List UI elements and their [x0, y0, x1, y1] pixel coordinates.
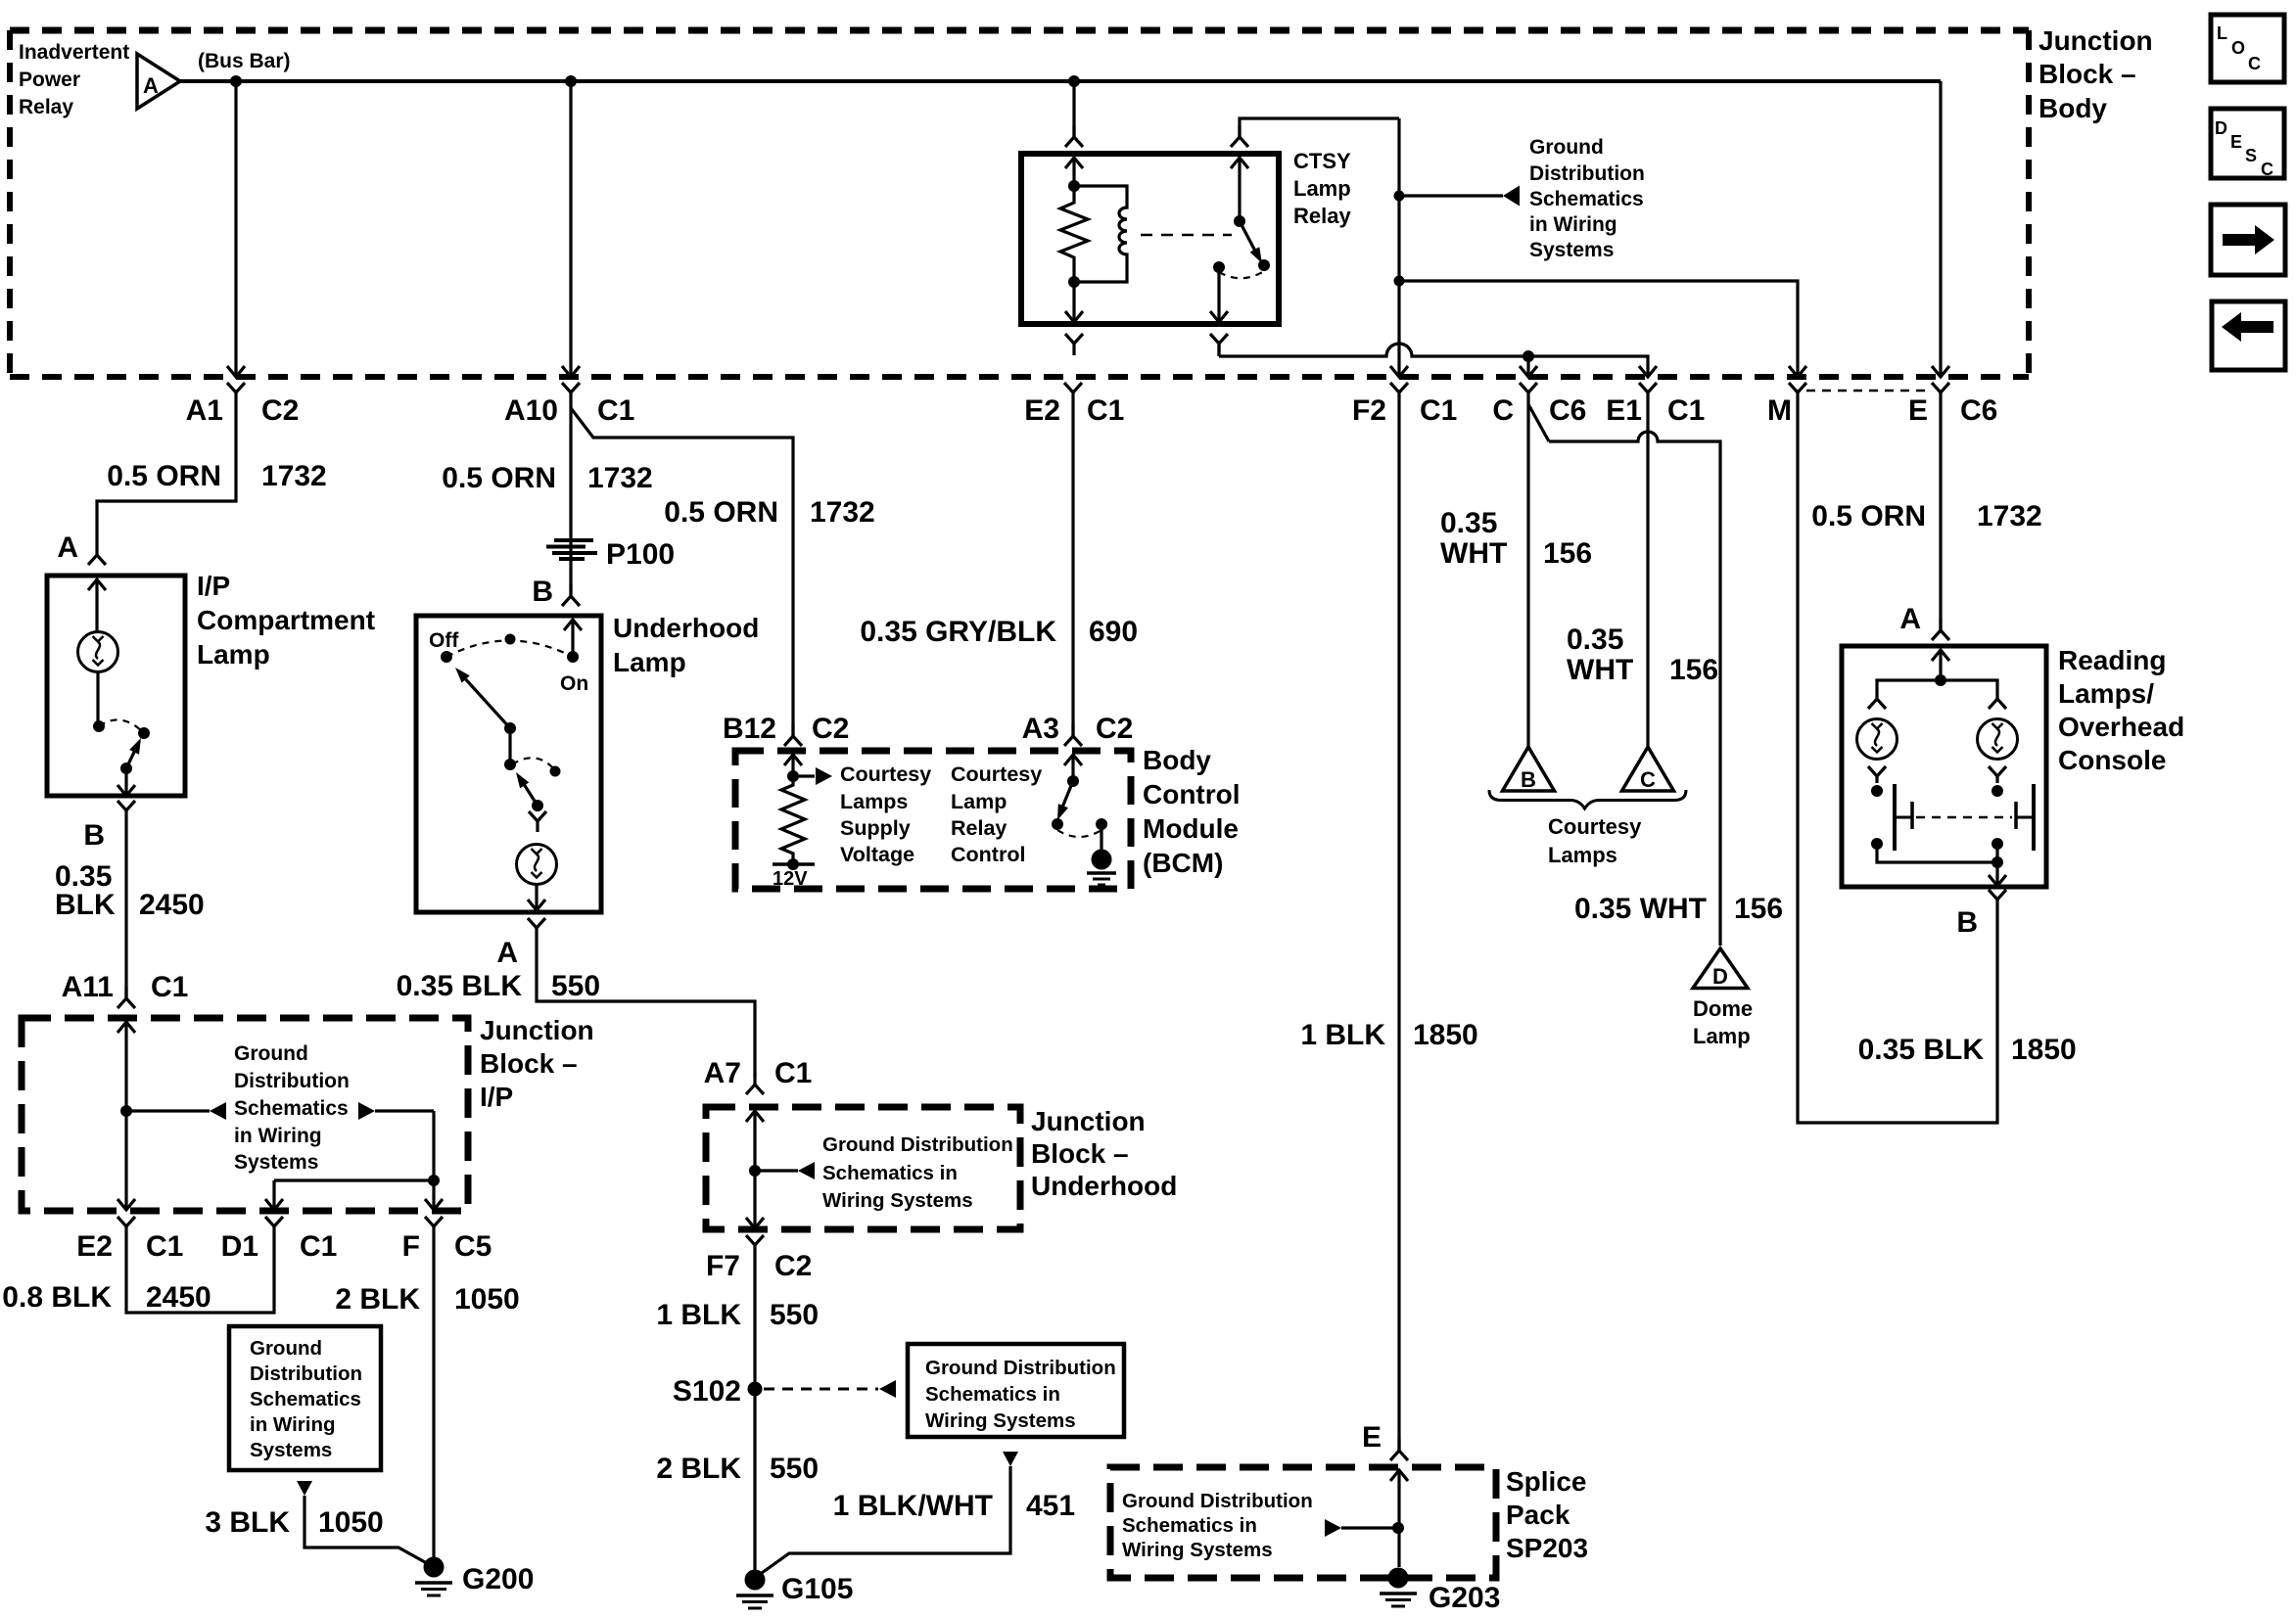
junction node on bus (A1) [230, 75, 242, 87]
relay coil (inductor) [1074, 186, 1127, 282]
svg-text:Courtesy: Courtesy [840, 762, 931, 786]
wire label: 2 BLK 550 [656, 1453, 819, 1485]
label: On [560, 672, 588, 695]
ground G203 [1380, 1568, 1500, 1615]
icon box right arrow [2211, 205, 2285, 275]
connector A10/C1 [504, 383, 634, 427]
junction node on bus (CTSY relay) [1068, 75, 1080, 87]
svg-text:E2: E2 [76, 1230, 113, 1263]
svg-text:C1: C1 [1667, 394, 1705, 427]
CTSY lamp relay box [1021, 154, 1279, 324]
svg-text:0.5 ORN: 0.5 ORN [107, 460, 221, 492]
svg-text:Distribution: Distribution [1529, 162, 1645, 185]
connector A3/C2 [1022, 713, 1134, 746]
courtesy lamp triangle C [1622, 747, 1674, 792]
node on switch output wire (C feed) [1523, 350, 1534, 362]
svg-text:C1: C1 [597, 394, 634, 427]
connector F7/C2 [706, 1235, 812, 1282]
wire label: 3 BLK 1050 [205, 1506, 383, 1539]
wire label: 1 BLK 1850 [1300, 1019, 1477, 1051]
svg-text:550: 550 [551, 970, 600, 1002]
relay coil entry arrow [1065, 158, 1083, 186]
underhood switch link [508, 728, 511, 764]
svg-text:0.5 ORN: 0.5 ORN [1811, 500, 1926, 532]
svg-text:C2: C2 [812, 713, 849, 745]
svg-text:Relay: Relay [951, 816, 1007, 840]
svg-text:1850: 1850 [1413, 1019, 1478, 1051]
underhood lamp exit arrow [528, 884, 545, 910]
BCM switch arm [1057, 781, 1073, 820]
svg-text:0.35 GRY/BLK: 0.35 GRY/BLK [860, 616, 1056, 648]
ground dist reference line left (I/P) [126, 1102, 226, 1120]
underhood switch node mid [505, 634, 516, 645]
label: Reading Lamps/ Overhead Console [2058, 645, 2184, 775]
label: I/P Compartment Lamp [197, 571, 375, 670]
left reading lamp connector [1868, 699, 1886, 709]
svg-text:Body: Body [2038, 93, 2107, 123]
icon box DESC [2211, 109, 2284, 179]
svg-text:Distribution: Distribution [234, 1070, 350, 1092]
svg-text:C6: C6 [1960, 394, 1997, 427]
label: Ground Distribution Schematics in Wiring Systems (box middle) [925, 1357, 1116, 1432]
wire E/C6 to reading lamps A [1939, 404, 1942, 630]
reading lamps top node [1935, 674, 1946, 686]
connector C/C6 [1492, 383, 1586, 427]
svg-text:(Bus Bar): (Bus Bar) [198, 50, 291, 72]
BCM B12 entry arrow [784, 755, 802, 776]
svg-text:Compartment: Compartment [197, 605, 375, 635]
reading lamps feed wires [1877, 680, 1997, 699]
dome lamp triangle D [1693, 948, 1748, 989]
label: Junction Block - Underhood [1031, 1106, 1177, 1201]
svg-text:A10: A10 [504, 394, 558, 427]
wire label: 0.35 GRY/BLK 690 [860, 616, 1138, 648]
relay switch contact node (fixed) [1213, 261, 1225, 273]
label: Junction Block - Body [2038, 25, 2153, 123]
wire inside junction block underhood [746, 1111, 764, 1228]
junction block - underhood dashed box [706, 1107, 1020, 1229]
svg-text:Schematics in: Schematics in [822, 1162, 958, 1184]
relay coil to switch dashed link [1141, 234, 1232, 237]
wire inside junction block I/P (to D1 and F) [265, 1111, 443, 1210]
relay switch dashed arc [1219, 271, 1264, 278]
svg-text:A: A [143, 73, 159, 98]
label: Courtesy Lamps Supply Voltage [840, 762, 931, 866]
wire C6 to courtesy lamp B [1526, 404, 1529, 747]
wire label: 0.5 ORN 1732 (E) [1811, 500, 2041, 532]
connector A below underhood lamp [496, 918, 545, 969]
brace under courtesy lamps [1489, 790, 1686, 808]
BCM internal resistor [781, 776, 805, 861]
svg-text:Supply: Supply [840, 816, 911, 840]
svg-text:Dome: Dome [1693, 996, 1753, 1021]
svg-text:451: 451 [1026, 1490, 1075, 1522]
svg-text:M: M [1767, 394, 1792, 427]
svg-text:C5: C5 [454, 1230, 492, 1263]
svg-text:E2: E2 [1024, 394, 1060, 427]
dashed link M to E inside junction block [1806, 390, 1932, 393]
underhood switch node 3 [550, 766, 561, 777]
svg-text:C2: C2 [261, 394, 299, 427]
svg-text:550: 550 [770, 1299, 819, 1331]
splice reference arrow [1325, 1519, 1394, 1537]
BCM A3 entry arrow [1064, 755, 1082, 781]
wire F7 to G105 [753, 1257, 756, 1580]
svg-text:Schematics in: Schematics in [1122, 1514, 1257, 1537]
I/P lamp entry arrow [88, 579, 106, 631]
svg-text:D1: D1 [221, 1230, 258, 1263]
label: Ground Distribution Schematics in Wiring Systems (top) [1529, 136, 1645, 261]
svg-text:WHT: WHT [1567, 654, 1633, 686]
svg-text:2450: 2450 [146, 1281, 211, 1314]
svg-text:F2: F2 [1352, 394, 1386, 427]
BCM internal node (B12) [787, 770, 799, 782]
wire label: 2 BLK 1050 [335, 1283, 519, 1316]
wire 3 BLK to G200 [305, 1496, 434, 1567]
svg-text:0.35: 0.35 [1440, 507, 1497, 539]
svg-text:in Wiring: in Wiring [250, 1413, 336, 1436]
svg-text:Wiring Systems: Wiring Systems [1122, 1539, 1273, 1561]
svg-text:0.35: 0.35 [1567, 624, 1623, 656]
BCM 12V supply bar [773, 858, 815, 890]
svg-text:E1: E1 [1606, 394, 1642, 427]
svg-text:2 BLK: 2 BLK [335, 1283, 420, 1316]
splice node [1392, 1522, 1404, 1534]
wire E1/C1 to courtesy lamp C [1646, 404, 1649, 747]
svg-text:Systems: Systems [234, 1151, 318, 1174]
node inside junction block underhood [749, 1165, 761, 1177]
connector E into splice pack [1390, 1439, 1408, 1460]
wire label: 0.35 WHT 156 (dome) [1574, 893, 1783, 925]
svg-text:1732: 1732 [261, 460, 327, 492]
svg-text:G203: G203 [1429, 1582, 1500, 1614]
wire relay switch output to C and E1 [1219, 344, 1657, 377]
svg-text:550: 550 [770, 1453, 819, 1485]
svg-text:Systems: Systems [250, 1439, 332, 1461]
svg-text:C1: C1 [146, 1230, 183, 1263]
connector E2/C1 (I/P out) [76, 1217, 183, 1263]
node inside junction block I/P (F drop) [428, 1175, 440, 1186]
underhood switch dashed arc (off-on) [446, 641, 573, 658]
underhood switch pivot node [504, 722, 516, 734]
wire label: 0.35 WHT 156 (second) [1567, 624, 1718, 686]
wire bus drop to A1 [227, 81, 245, 377]
connector A7/C1 [704, 1057, 813, 1094]
connector F/C5 [402, 1217, 492, 1263]
svg-text:L: L [2217, 23, 2227, 43]
label: CTSY Lamp Relay [1293, 149, 1351, 228]
svg-text:On: On [560, 672, 588, 695]
svg-text:Distribution: Distribution [250, 1363, 362, 1385]
underhood switch arm 1 [455, 668, 510, 728]
svg-text:A7: A7 [704, 1057, 741, 1089]
svg-text:Schematics in: Schematics in [925, 1383, 1060, 1406]
label: Junction Block - I/P [480, 1015, 594, 1112]
underhood switch arm 2 [516, 772, 538, 806]
right reading lamp node [1991, 785, 2003, 797]
connector below relay (coil out) [1065, 334, 1083, 355]
wire C feed drop [1520, 356, 1537, 377]
I/P lamp bulb [78, 632, 118, 672]
svg-text:Ground Distribution: Ground Distribution [822, 1133, 1013, 1156]
svg-text:G105: G105 [781, 1573, 853, 1605]
svg-text:Ground Distribution: Ground Distribution [1122, 1490, 1313, 1512]
connector A1/C2 [186, 383, 300, 427]
body control module dashed box [735, 751, 1131, 889]
svg-text:1732: 1732 [810, 496, 875, 529]
svg-text:Lamp: Lamp [197, 639, 270, 670]
svg-text:WHT: WHT [1440, 537, 1507, 570]
svg-text:C1: C1 [1420, 394, 1457, 427]
svg-text:Block –: Block – [2038, 59, 2136, 89]
wire bus drop to A10 [562, 81, 580, 377]
underhood lamp box [416, 616, 601, 912]
svg-text:Ground: Ground [234, 1042, 308, 1065]
svg-text:1 BLK: 1 BLK [1300, 1019, 1385, 1051]
svg-text:1050: 1050 [454, 1283, 520, 1316]
svg-text:0.5 ORN: 0.5 ORN [442, 462, 556, 494]
svg-text:Schematics: Schematics [234, 1097, 349, 1120]
wire label: 1 BLK/WHT 451 [833, 1490, 1075, 1522]
relay switch common wire up [1231, 158, 1248, 221]
svg-text:Junction: Junction [480, 1015, 594, 1045]
label: Dome Lamp [1693, 996, 1753, 1048]
svg-text:Lamp: Lamp [613, 647, 686, 677]
splice pack entry arrow [1390, 1470, 1408, 1567]
svg-text:1 BLK/WHT: 1 BLK/WHT [833, 1490, 993, 1522]
svg-text:I/P: I/P [197, 571, 230, 601]
ground G105 [736, 1570, 853, 1609]
svg-text:A3: A3 [1022, 713, 1059, 745]
wire label: 0.5 ORN 1732 (B12) [664, 496, 874, 529]
svg-text:0.5 ORN: 0.5 ORN [664, 496, 778, 529]
grommet P100 [546, 538, 675, 571]
connector D1/C1 [221, 1217, 338, 1263]
svg-text:F: F [402, 1230, 420, 1263]
svg-text:C: C [2261, 160, 2273, 179]
reading lamps bottom right node [1991, 838, 2003, 862]
svg-text:S102: S102 [673, 1375, 741, 1408]
svg-text:E: E [1362, 1421, 1382, 1454]
arrow below middle ground box [1003, 1452, 1018, 1466]
node inside junction block I/P [120, 1105, 132, 1117]
wire label: 0.35 BLK 1850 [1858, 1034, 2077, 1066]
wire to M connector [1399, 281, 1806, 377]
svg-text:CTSY: CTSY [1293, 149, 1351, 173]
I/P compartment lamp box [47, 576, 185, 796]
svg-text:SP203: SP203 [1506, 1533, 1588, 1563]
wire label: 0.35 BLK 2450 [55, 860, 205, 921]
relay switch common node [1234, 215, 1245, 227]
relay internal node (coil bottom) [1068, 276, 1080, 288]
svg-text:A: A [1899, 603, 1921, 635]
I/P lamp wire bulb to switch [96, 672, 99, 726]
label: Off [429, 629, 459, 652]
reading lamps bottom wire [1877, 844, 1997, 862]
label: A (reading lamps pin) [1899, 603, 1921, 635]
svg-text:D: D [2215, 118, 2227, 138]
wire E2 to A3 [1071, 404, 1074, 736]
svg-text:E: E [1908, 394, 1928, 427]
wire P100 to underhood lamp [532, 560, 571, 608]
label: Inadvertent Power Relay [19, 41, 129, 118]
svg-text:Ground Distribution: Ground Distribution [925, 1357, 1116, 1379]
right reading lamp connector out [1989, 766, 2006, 783]
svg-text:Relay: Relay [1293, 204, 1351, 228]
junction block - body (dashed outline) [10, 30, 2029, 377]
svg-text:Lamp: Lamp [951, 790, 1007, 813]
label: E (splice pack pin) [1362, 1421, 1382, 1454]
ground distribution schematics box (left) [229, 1326, 381, 1470]
connector B below I/P lamp [83, 801, 135, 852]
svg-text:BLK: BLK [55, 889, 116, 921]
svg-text:Lamps: Lamps [1548, 843, 1617, 867]
branch wire A10 to B12 [571, 408, 793, 736]
wire 1 BLK/WHT to G105 [755, 1466, 1010, 1578]
underhood switch dashed arc 2 [512, 758, 555, 770]
I/P lamp switch pivot node [93, 720, 105, 732]
svg-text:0.8 BLK: 0.8 BLK [2, 1281, 112, 1314]
left reading lamp node [1871, 785, 1883, 797]
connector B below reading lamps [1956, 890, 2006, 939]
svg-text:Module: Module [1143, 813, 1239, 844]
svg-text:Ground: Ground [250, 1337, 322, 1360]
S102 dashed reference line [764, 1380, 896, 1398]
node on F2 drop (to M feed) [1394, 276, 1405, 287]
node on F2 drop (to ground dist ref) [1394, 191, 1405, 202]
underhood switch lower node [532, 800, 543, 811]
arrow below left ground box [297, 1481, 312, 1496]
underhood switch node 2 [504, 759, 516, 770]
inadvertent power relay triangle A [137, 54, 180, 109]
label: Ground Distribution Schematics in Wiring Systems (box left) [250, 1337, 362, 1461]
svg-text:Schematics: Schematics [250, 1388, 361, 1410]
BCM internal node (A3) [1067, 775, 1079, 787]
ground dist reference line (top) [1399, 186, 1520, 207]
wire label: 0.8 BLK 2450 [2, 1281, 211, 1314]
connector E1/C1 [1606, 383, 1705, 427]
wire inside junction block I/P (A11 to E2) [117, 1022, 135, 1210]
svg-text:Control: Control [951, 843, 1025, 866]
BCM switch contact node left [1052, 818, 1063, 830]
svg-text:C1: C1 [151, 971, 188, 1003]
svg-text:C: C [2248, 54, 2261, 73]
icon box LOC [2211, 15, 2284, 82]
reading lamps box [1842, 646, 2046, 887]
label: (Bus Bar) [198, 50, 291, 72]
courtesy lamp triangle B [1503, 747, 1555, 792]
I/P lamp switch lower node [120, 762, 132, 774]
ground dist reference line right (I/P) [358, 1102, 434, 1120]
relay internal node (coil top) [1068, 180, 1080, 192]
svg-text:C2: C2 [1096, 713, 1133, 745]
BCM switch dashed arc [1057, 830, 1101, 837]
svg-text:Splice: Splice [1506, 1466, 1586, 1497]
reading lamps out node [1991, 856, 2003, 868]
svg-text:C: C [1640, 767, 1656, 792]
svg-text:Voltage: Voltage [840, 843, 914, 866]
connector M [1767, 383, 1806, 427]
reading lamps entry arrow [1932, 650, 1949, 680]
label: Splice Pack SP203 [1506, 1466, 1588, 1563]
svg-text:E: E [2230, 132, 2242, 152]
left reading lamp bulb [1857, 719, 1898, 760]
wire F to G200 [432, 1238, 435, 1567]
wire reading lamps B to M connector [1798, 404, 1997, 1123]
I/P lamp switch contact node [138, 727, 150, 739]
svg-text:156: 156 [1669, 654, 1718, 686]
wire F2 to splice pack E [1397, 404, 1400, 1451]
svg-text:Overhead: Overhead [2058, 712, 2184, 742]
svg-text:1850: 1850 [2011, 1034, 2077, 1066]
wire label: 0.35 WHT 156 (first) [1440, 507, 1592, 570]
label: Courtesy Lamp Relay Control [951, 762, 1042, 866]
svg-text:156: 156 [1734, 893, 1783, 925]
label: Ground Distribution Schematics in Wiring Systems (underhood) [822, 1133, 1013, 1212]
svg-text:B12: B12 [723, 713, 776, 745]
wire label: 0.35 BLK 550 [397, 970, 600, 1002]
svg-text:Lamps: Lamps [840, 790, 908, 813]
svg-text:Courtesy: Courtesy [1548, 814, 1642, 839]
svg-text:C1: C1 [300, 1230, 337, 1263]
BCM reference arrow to text [793, 767, 832, 785]
svg-text:C: C [1492, 394, 1514, 427]
svg-text:S: S [2245, 146, 2257, 165]
svg-text:Junction: Junction [1031, 1106, 1146, 1136]
splice pack SP203 dashed box [1110, 1467, 1496, 1578]
I/P lamp switch dashed arc [99, 719, 144, 733]
connector E2/C1 (BCM feed) [1024, 383, 1124, 427]
bus bar wire [180, 79, 1941, 83]
wire E2 to D1 (U shape) [126, 1238, 274, 1313]
svg-text:Courtesy: Courtesy [951, 762, 1042, 786]
svg-text:Underhood: Underhood [613, 613, 759, 643]
svg-text:3 BLK: 3 BLK [205, 1506, 290, 1539]
connector A into I/P lamp [88, 543, 106, 565]
wire underhood A to A7 [537, 940, 755, 1077]
svg-text:Junction: Junction [2038, 25, 2153, 56]
svg-text:B: B [83, 819, 105, 852]
svg-text:690: 690 [1089, 616, 1138, 648]
svg-text:0.35 WHT: 0.35 WHT [1574, 893, 1707, 925]
reading lamps exit arrow [1989, 862, 2006, 886]
svg-text:C1: C1 [774, 1057, 812, 1089]
icon box left arrow [2212, 301, 2285, 370]
svg-text:D: D [1712, 964, 1728, 989]
svg-text:2450: 2450 [139, 889, 205, 921]
underhood internal connector [529, 806, 546, 832]
reading lamps switch dashed link [1916, 816, 2012, 819]
svg-text:Power: Power [19, 69, 80, 91]
label: A (I/P lamp pin) [57, 531, 78, 564]
connector B into underhood lamp [562, 584, 580, 606]
connector into relay (switch side) [1231, 125, 1248, 147]
svg-text:Block –: Block – [1031, 1138, 1129, 1169]
svg-text:A11: A11 [62, 971, 114, 1003]
svg-text:(BCM): (BCM) [1143, 848, 1223, 878]
wire relay common to F2 drop [1240, 118, 1399, 137]
svg-text:A: A [496, 937, 518, 969]
left reading lamp connector out [1868, 766, 1886, 783]
connector A11/C1 [62, 971, 189, 1008]
svg-text:156: 156 [1543, 537, 1592, 570]
reading lamps switch right [2016, 784, 2034, 851]
svg-text:A: A [57, 531, 78, 564]
relay switch arm [1240, 221, 1262, 263]
svg-text:Reading: Reading [2058, 645, 2166, 675]
wire I/P lamp B to junction block I/P [124, 822, 127, 998]
svg-text:1732: 1732 [1977, 500, 2042, 532]
